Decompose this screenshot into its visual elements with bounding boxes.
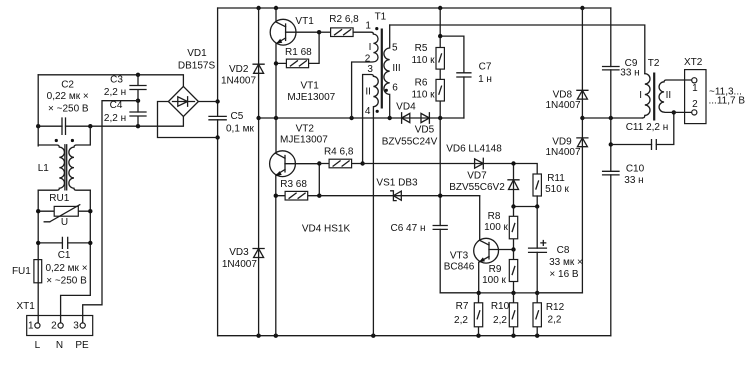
svg-text:R9: R9 [489,264,502,275]
svg-text:1: 1 [28,320,34,331]
svg-text:C8: C8 [557,245,570,256]
svg-text:110 к: 110 к [411,55,435,66]
svg-text:2,2: 2,2 [454,315,468,326]
svg-text:MJE13007: MJE13007 [287,92,335,103]
diode VD6 LL4148 [446,144,502,169]
varistor RU1 [36,193,93,228]
resistor R10 2,2 [491,293,518,336]
svg-text:2: 2 [51,320,57,331]
svg-text:6: 6 [392,83,398,94]
capacitor C9 [603,8,640,118]
svg-text:VD5: VD5 [415,124,435,135]
svg-text:1N4007: 1N4007 [545,147,580,158]
svg-text:R4 6,8: R4 6,8 [324,147,354,158]
svg-text:I: I [639,90,642,101]
svg-text:5: 5 [392,43,398,54]
svg-text:FU1: FU1 [12,266,31,277]
svg-text:4: 4 [365,106,371,117]
diode VD8 1N4007 [537,8,588,293]
svg-text:I: I [369,42,372,53]
resistor R8 100k [484,207,518,250]
wire: AC top line [38,73,183,87]
capacitor C6 47n [391,118,479,293]
svg-text:1 н: 1 н [478,74,492,85]
svg-text:R10: R10 [491,301,510,312]
svg-text:510 к: 510 к [545,184,569,195]
transistor VT1 MJE13007 [270,8,335,118]
diode VD9 1N4007 [545,137,587,158]
svg-text:C10: C10 [626,164,645,175]
svg-text:T1: T1 [375,12,387,23]
svg-text:III: III [392,63,400,74]
svg-text:R5: R5 [415,43,428,54]
svg-text:VD3: VD3 [229,247,249,258]
transformer T1 [352,12,401,336]
capacitor C2 [47,80,89,135]
svg-text:1N4007: 1N4007 [222,259,257,270]
svg-text:T2: T2 [648,58,660,69]
svg-text:110 к: 110 к [411,89,435,100]
svg-text:DB157S: DB157S [178,61,216,72]
svg-text:VD4: VD4 [396,101,416,112]
svg-text:2: 2 [692,99,698,110]
svg-text:BZV55C24V: BZV55C24V [382,137,438,148]
svg-text:2: 2 [365,53,371,64]
svg-text:2,2: 2,2 [493,315,507,326]
wire: C3/C4 midpoint to PE [83,101,138,323]
svg-text:MJE13007: MJE13007 [280,135,328,146]
svg-text:VT1: VT1 [301,81,320,92]
top DC rail [218,6,611,10]
capacitor C3 [104,75,146,112]
T2 winding I [642,74,650,118]
bridge rectifier VD1 DB157S [168,48,215,116]
capacitor C1 [36,237,93,286]
T1 winding II (pins 3-4) [363,75,379,336]
svg-text:VD7: VD7 [467,171,487,182]
svg-text:C3: C3 [110,75,123,86]
svg-text:N: N [56,340,63,351]
svg-text:2,2 н: 2,2 н [104,87,126,98]
resistor R9 100k [482,250,518,293]
svg-text:1: 1 [365,21,371,32]
capacitor C8 (electrolytic) [529,207,583,293]
transistor VT2 MJE13007 [270,118,329,336]
svg-text:C11 2,2 н: C11 2,2 н [626,122,669,133]
svg-text:XT1: XT1 [17,301,36,312]
svg-text:2,2: 2,2 [548,315,562,326]
diac VS1 DB3 [376,178,418,201]
svg-text:XT2: XT2 [684,57,703,68]
svg-text:C6 47 н: C6 47 н [391,223,426,234]
fuse FU1 [12,260,42,283]
svg-text:R1 68: R1 68 [285,47,312,58]
svg-text:C7: C7 [479,62,492,73]
resistor R5 110k [411,8,444,79]
T1 core [381,29,383,109]
capacitor C11 2,2n [611,110,676,149]
svg-text:3: 3 [73,320,79,331]
svg-text:C5: C5 [231,111,244,122]
diode VD2 1N4007 [221,8,264,336]
svg-text:C4: C4 [110,100,123,111]
svg-text:BZV55C6V2: BZV55C6V2 [449,182,505,193]
T1 winding I (pins 1-2) [352,32,378,118]
VS1 line [319,195,479,197]
bottom DC rail [218,334,611,338]
svg-text:VD4 HS1K: VD4 HS1K [302,224,351,235]
wire: pin5 line to T2 [390,25,645,74]
svg-text:L1: L1 [38,163,50,174]
base/VD6 line [363,164,538,175]
capacitor C5 [209,111,255,135]
svg-text:VT2: VT2 [296,123,315,134]
wire: bridge - output [158,102,218,138]
emitter/sense line [440,291,582,295]
zener VD5 BZV55C24V [382,113,438,148]
svg-text:1N4007: 1N4007 [545,100,580,111]
svg-text:II: II [365,87,371,98]
svg-text:VD9: VD9 [552,137,572,148]
transistor VT3 BC846 [444,196,516,293]
wire: bridge + output [198,101,217,103]
svg-text:1N4007: 1N4007 [221,75,256,86]
svg-text:R12: R12 [546,302,565,313]
svg-text:II: II [666,90,672,101]
svg-text:C1: C1 [58,250,71,261]
capacitor C4 [104,99,146,127]
svg-text:C2: C2 [61,80,74,91]
zener VD7 BZV55C6V2 [449,161,519,206]
svg-text:VT1: VT1 [295,16,314,27]
svg-text:VD2: VD2 [229,64,249,75]
svg-text:VT3: VT3 [450,251,469,262]
T1 winding III (pins 5-6) [384,25,390,118]
svg-text:× ~250 В: × ~250 В [46,276,87,287]
resistor R4 6,8 [319,147,365,168]
svg-text:R8: R8 [488,211,501,222]
resistor R11 510k [533,173,570,206]
svg-text:R2 6,8: R2 6,8 [329,14,359,25]
svg-text:BC846: BC846 [444,261,475,272]
svg-text:0,22 мк ×: 0,22 мк × [45,263,87,274]
svg-text:L: L [35,340,41,351]
svg-text:R6: R6 [415,78,428,89]
VD7/R11 bottom link [511,204,539,208]
svg-text:U: U [61,217,68,228]
T2 primary bottom line [582,116,642,120]
connector XT1 [17,301,93,351]
transformer T2 [639,58,691,120]
svg-text:0,22 мк ×: 0,22 мк × [47,91,89,102]
resistor R2 6,8 [319,14,359,37]
svg-text:RU1: RU1 [49,193,69,204]
capacitor C7 [438,34,492,118]
wire: AC bottom line with C2 in series [36,116,183,128]
svg-text:1: 1 [692,83,698,94]
svg-text:VD8: VD8 [553,90,573,101]
svg-text:R11: R11 [547,173,565,184]
svg-text:VD6 LL4148: VD6 LL4148 [446,144,502,155]
svg-text:100 к: 100 к [482,275,506,286]
resistor R1 68 [274,30,322,68]
resistor R7 2,2 [454,293,483,336]
svg-text:VS1 DB3: VS1 DB3 [376,178,418,189]
svg-text:× ~250 В: × ~250 В [48,104,89,115]
svg-text:VD1: VD1 [187,48,207,59]
svg-text:2,2 н: 2,2 н [104,113,126,124]
svg-text:...11,7 В: ...11,7 В [709,96,746,107]
main DC bus vertical [215,8,219,336]
svg-text:R3 68: R3 68 [280,179,307,190]
svg-text:0,1 мк: 0,1 мк [226,124,255,135]
svg-text:100 к: 100 к [484,222,508,233]
T2 core [653,73,655,121]
zener VD4 BZV55C24V [396,101,416,123]
choke L1 [38,126,91,190]
left vertical below L1 [37,190,39,323]
svg-text:33 н: 33 н [620,67,639,78]
svg-text:33 н: 33 н [624,175,643,186]
T2 winding II [659,80,692,112]
mid rail (half-bridge midpoint) [259,116,464,120]
connector XT2 [684,57,745,124]
diode VD3 1N4007 [222,247,264,270]
resistor R6 110k [411,78,444,118]
right vertical below L1 (N) [61,190,91,323]
capacitor C10 [603,118,645,336]
svg-text:33 мк ×: 33 мк × [549,257,583,268]
left AC vertical (L feed) [37,75,39,146]
resistor R12 2,2 [533,293,565,336]
svg-text:× 16 В: × 16 В [549,269,579,280]
resistor R3 68 [274,161,322,200]
svg-text:R7: R7 [456,301,469,312]
svg-text:PE: PE [75,340,89,351]
svg-text:3: 3 [367,64,373,75]
